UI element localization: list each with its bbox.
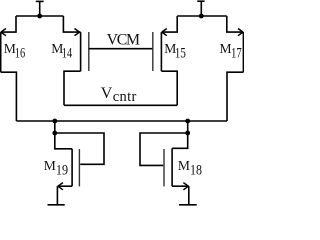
svg-text:M: M bbox=[178, 158, 190, 173]
svg-text:M: M bbox=[220, 41, 232, 56]
svg-text:15: 15 bbox=[175, 46, 186, 62]
wire VCM gate wire bbox=[89, 48, 153, 50]
svg-text:19: 19 bbox=[56, 163, 68, 179]
svg-text:M: M bbox=[44, 158, 56, 173]
transistor M19 channel bbox=[71, 149, 73, 186]
wire M19 gate feed loop bbox=[55, 133, 104, 164]
transistor M17 drain lead bbox=[227, 16, 243, 32]
wire Vcntr node line bbox=[64, 104, 177, 106]
transistor M19 source lead with arrow bbox=[57, 185, 72, 187]
transistor M16 source arrow bbox=[1, 29, 6, 36]
transistor M18 channel bbox=[171, 148, 173, 186]
power supply symbol P2 (right VDD) bbox=[197, 1, 204, 16]
transistor M14 gate bar bbox=[88, 32, 90, 71]
transistor M16 source lead wire bbox=[1, 72, 17, 121]
svg-text:18: 18 bbox=[190, 163, 202, 179]
power supply symbol P1 (left VDD) bbox=[36, 1, 44, 16]
transistor M18 source lead with arrow bbox=[172, 185, 189, 187]
transistor M14 channel bbox=[80, 32, 82, 71]
node dot right on lower rail bbox=[185, 119, 190, 124]
transistor M15 source arrow bbox=[162, 29, 167, 36]
transistor M16 drain lead bbox=[1, 16, 16, 32]
svg-text:V: V bbox=[101, 85, 113, 102]
node dot right on gate feed wire bbox=[185, 131, 190, 136]
svg-text:17: 17 bbox=[231, 46, 242, 62]
transistor M17 channel bbox=[242, 32, 244, 72]
wire right top rail bbox=[177, 15, 227, 17]
wire main lower rail bbox=[16, 120, 227, 122]
transistor M18 drain lead bbox=[172, 133, 188, 148]
transistor M15 gate bar bbox=[152, 32, 154, 71]
svg-text:VCM: VCM bbox=[107, 32, 140, 49]
wire left top rail bbox=[16, 15, 63, 17]
node junction dot on left rail bbox=[37, 14, 42, 19]
transistor M14 source arrow bbox=[75, 29, 80, 36]
svg-text:14: 14 bbox=[62, 46, 73, 62]
transistor M16 channel bbox=[0, 32, 2, 72]
svg-text:cntr: cntr bbox=[113, 89, 137, 105]
svg-text:16: 16 bbox=[15, 46, 26, 62]
transistor M17 source arrow bbox=[238, 29, 243, 36]
transistor M19 gate bar bbox=[78, 149, 80, 186]
transistor M15 source lead wire to Vcntr bbox=[161, 71, 177, 105]
wire link from lower rail to gate feed (left) bbox=[54, 121, 56, 133]
transistor M14 source lead wire to Vcntr bbox=[64, 71, 81, 105]
transistor M14 drain lead bbox=[63, 16, 80, 32]
transistor M19 drain lead bbox=[55, 133, 72, 149]
transistor M17 source lead wire bbox=[227, 72, 243, 121]
transistor M18 gate bar bbox=[163, 149, 165, 186]
transistor M15 drain lead bbox=[162, 16, 178, 32]
node dot left on lower rail bbox=[52, 119, 57, 124]
transistor M15 channel bbox=[160, 32, 162, 71]
ground symbol right bbox=[179, 186, 197, 205]
ground symbol left bbox=[48, 186, 65, 205]
wire M18 gate feed loop bbox=[140, 133, 188, 165]
node dot left on gate feed wire bbox=[52, 131, 57, 136]
node junction dot on right rail bbox=[199, 14, 204, 19]
wire link from lower rail to gate feed (right) bbox=[187, 121, 189, 133]
